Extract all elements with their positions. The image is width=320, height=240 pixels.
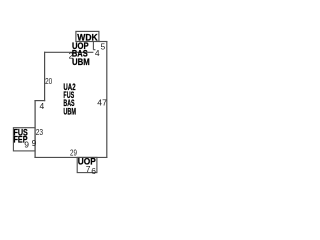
svg-text:2: 2 [69, 51, 74, 61]
svg-text:23: 23 [36, 127, 44, 137]
svg-text:5: 5 [101, 41, 106, 51]
svg-text:9: 9 [24, 139, 29, 149]
svg-text:4: 4 [40, 101, 45, 111]
svg-text:4: 4 [95, 48, 100, 58]
svg-text:6: 6 [91, 166, 96, 176]
svg-text:9: 9 [32, 138, 37, 148]
svg-text:7: 7 [86, 164, 91, 174]
svg-text:UBM: UBM [72, 57, 90, 68]
svg-text:47: 47 [97, 98, 107, 108]
svg-text:29: 29 [70, 148, 77, 158]
svg-text:UBM: UBM [63, 106, 76, 116]
svg-text:20: 20 [45, 76, 52, 86]
